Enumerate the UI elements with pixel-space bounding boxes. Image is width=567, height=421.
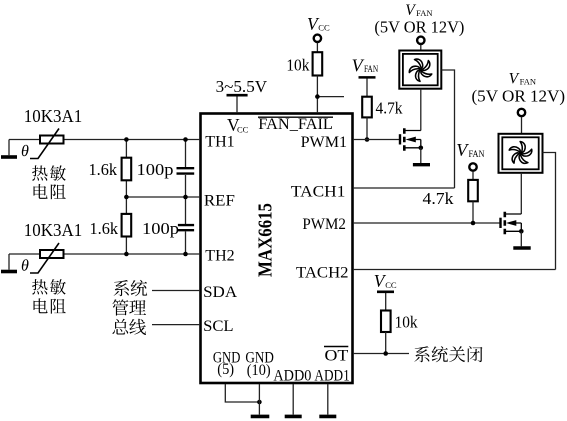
label R3 10k (286, 56, 309, 75)
svg-text:V: V (509, 70, 520, 87)
pin label TH1 (205, 134, 234, 151)
svg-text:FAN: FAN (469, 150, 485, 160)
svg-text:3~5.5V: 3~5.5V (216, 77, 268, 96)
svg-text:10K3A1: 10K3A1 (24, 220, 83, 240)
svg-text:TACH2: TACH2 (296, 265, 349, 282)
pin label REF (204, 193, 235, 210)
svg-text:(10): (10) (247, 362, 271, 379)
label RT1 热敏电阻 (32, 165, 66, 199)
label 系统关闭 (system shutdown) (414, 346, 482, 362)
wire PWM2 pin to Q2 gate (353, 222, 501, 224)
svg-text:REF: REF (204, 193, 235, 210)
node R6/OT junction (383, 351, 388, 356)
wire R4 to PWM1 (366, 117, 368, 139)
svg-text:(5V OR 12V): (5V OR 12V) (472, 87, 566, 106)
pin label GND (10) (245, 349, 274, 379)
svg-text:FAN_FAIL: FAN_FAIL (258, 116, 333, 133)
label C1 100p (137, 160, 174, 179)
ground at Q1 source (413, 148, 430, 165)
wire TACH1 pin (353, 187, 455, 189)
svg-text:100p: 100p (142, 219, 179, 238)
ground at ADD1 (319, 415, 336, 419)
ground at RT2 (1, 254, 17, 272)
svg-text:10K3A1: 10K3A1 (24, 106, 83, 126)
wire GND(5) pin (225, 384, 259, 402)
wire SDA stub (152, 290, 200, 292)
svg-text:CC: CC (237, 125, 249, 135)
pin label GND (5) (213, 349, 241, 378)
resistor R4 4.7k (362, 97, 372, 118)
svg-text:PWM1: PWM1 (301, 134, 348, 151)
pin label SDA (203, 284, 237, 301)
node GND join (257, 400, 262, 405)
svg-text:SCL: SCL (203, 318, 234, 335)
pin label FAN_FAIL (active low) (258, 116, 333, 133)
wire resistor branch vertical (125, 140, 127, 255)
fan B2 (499, 134, 543, 173)
capacitor C1 100p (177, 168, 195, 173)
wire VFAN to R5 (472, 171, 474, 180)
label RT1 value 10K3A1 (24, 106, 83, 126)
svg-text:TACH1: TACH1 (291, 184, 346, 201)
resistor R5 4.7k (468, 180, 478, 201)
wire R3 to FAN_FAIL pin (317, 76, 344, 114)
svg-text:4.7k: 4.7k (423, 189, 455, 208)
resistor R2 1.6k (122, 214, 132, 237)
wire fan B2 tach to TACH2 (543, 153, 556, 270)
svg-text:V: V (352, 56, 365, 76)
svg-text:10k: 10k (286, 56, 309, 75)
supply 3~5.5V (216, 77, 268, 113)
label R1 1.6k (89, 160, 118, 179)
supply VCC (pull-up R6) (374, 271, 397, 311)
wire SCL stub (152, 324, 200, 326)
node TH1/R1 junction (124, 137, 129, 142)
wire REF net (126, 196, 200, 198)
label R5 4.7k (423, 189, 455, 208)
capacitor C2 100p (178, 225, 194, 230)
node R3/FAN_FAIL junction (315, 94, 320, 99)
supply VFAN (5V OR 12V) fan B2 (472, 70, 566, 116)
node R5/PWM2 junction (471, 221, 476, 226)
label R2 1.6k (90, 219, 119, 238)
wire TH1 net (thermistor1 to pin TH1) (9, 139, 200, 141)
pin label TACH1 (291, 184, 346, 201)
wire fan B1 to Q1 drain (420, 89, 422, 131)
node REF/C junction (183, 195, 188, 200)
svg-text:1.6k: 1.6k (90, 219, 119, 238)
fan B1 (399, 51, 441, 89)
pin label TACH2 (296, 265, 349, 282)
wire TH2 net (thermistor2 to pin TH2) (9, 253, 200, 255)
ground at GND pins (251, 415, 270, 419)
resistor R1 1.6k (122, 158, 132, 181)
pin label ADD1 (314, 367, 349, 384)
wire GND(10) pin (258, 384, 260, 415)
svg-text:4.7k: 4.7k (376, 98, 403, 117)
node R4/PWM1 junction (365, 137, 370, 142)
svg-text:PWM2: PWM2 (302, 216, 346, 233)
svg-text:MAX6615: MAX6615 (255, 203, 277, 277)
svg-text:FAN: FAN (520, 77, 537, 86)
svg-text:V: V (456, 140, 469, 160)
wire capacitor branch vertical (185, 140, 187, 255)
resistor R6 10k (381, 311, 391, 333)
thermistor RT1 10K3A1 (22, 129, 64, 159)
resistor R3 10k (313, 52, 323, 75)
svg-text:TH1: TH1 (205, 134, 234, 151)
wire fan B2 to Q2 drain (520, 173, 522, 214)
wire TACH2 pin (353, 269, 556, 271)
label R6 10k (395, 312, 418, 331)
supply VFAN (pull-up R4) (352, 56, 379, 97)
label RT2 热敏电阻 (32, 279, 66, 314)
wire R5 to PWM2 (472, 201, 474, 223)
pin label ADD0 (273, 367, 311, 384)
ground at ADD0 (285, 415, 302, 419)
svg-text:ADD0: ADD0 (273, 367, 311, 384)
label C2 100p (142, 219, 179, 238)
supply VFAN terminal (pull-up R5) (456, 140, 484, 171)
part name MAX6615 (255, 203, 277, 277)
svg-text:FAN: FAN (364, 65, 378, 75)
svg-text:ADD1: ADD1 (314, 367, 349, 384)
ground at Q2 source (513, 232, 530, 249)
IC U1 MAX6615 body (201, 114, 353, 384)
wire ADD1 pin (327, 384, 329, 415)
svg-text:OT: OT (325, 347, 349, 364)
svg-text:TH2: TH2 (205, 248, 234, 265)
node TH2/R2 junction (124, 252, 129, 257)
label 系统管理总线 (SMBus) (112, 280, 147, 335)
svg-text:V: V (405, 2, 416, 19)
svg-text:FAN: FAN (416, 9, 433, 18)
svg-text:1.6k: 1.6k (89, 160, 118, 179)
thermistor RT2 10K3A1 (22, 243, 64, 273)
label R4 4.7k (376, 98, 403, 117)
transistor Q2 N-MOSFET (501, 212, 524, 234)
svg-text:CC: CC (318, 22, 330, 32)
pin label TH2 (205, 248, 234, 265)
svg-text:100p: 100p (137, 160, 174, 179)
pin label PWM2 (302, 216, 346, 233)
svg-text:CC: CC (385, 280, 397, 290)
svg-text:SDA: SDA (203, 284, 237, 301)
svg-text:(5V OR 12V): (5V OR 12V) (374, 18, 464, 37)
wire ADD0 pin (292, 384, 294, 415)
ground at RT1 (1, 140, 17, 158)
pin label SCL (203, 318, 234, 335)
node TH2/C2 junction (183, 252, 188, 257)
svg-text:(5): (5) (217, 361, 234, 378)
pin label PWM1 (301, 134, 348, 151)
wire PWM1 pin to Q1 gate (353, 139, 400, 141)
label RT2 value 10K3A1 (24, 220, 83, 240)
transistor Q1 N-MOSFET (400, 128, 423, 150)
supply VCC terminal (top) (307, 14, 330, 42)
wire VCC to R3 (316, 43, 318, 53)
node TH1/C1 junction (183, 137, 188, 142)
svg-text:10k: 10k (395, 312, 418, 331)
wire OT pin (353, 332, 409, 354)
pin label VCC (227, 115, 249, 135)
node REF/R junction (124, 195, 129, 200)
wire fan B1 tach to TACH1 (442, 70, 455, 188)
wire VFAN to fan B1 (420, 45, 422, 51)
supply VFAN (5V OR 12V) fan B1 (374, 2, 464, 44)
wire VFAN to fan B2 (521, 117, 523, 134)
pin label OT (active low) (324, 347, 349, 365)
